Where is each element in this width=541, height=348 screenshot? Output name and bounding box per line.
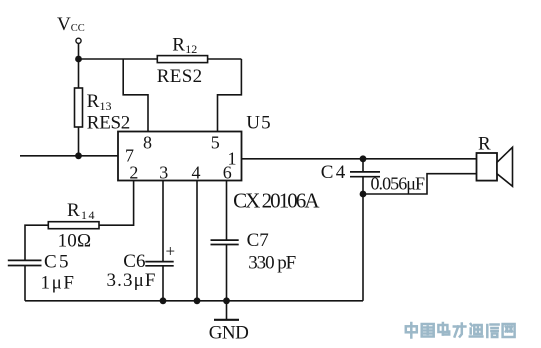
svg-text:5: 5 bbox=[211, 133, 220, 153]
resistor R12 bbox=[157, 56, 207, 63]
resistor R13 bbox=[75, 88, 83, 127]
watermark logo text bbox=[406, 323, 515, 338]
wire input to U5 pin 7 bbox=[20, 155, 118, 157]
junction dot bus pin4 bbox=[194, 297, 201, 304]
wire U5 pin 2 down to R14 bbox=[99, 181, 134, 226]
junction dot Vcc node bbox=[75, 56, 82, 63]
junction dot bus pin3 bbox=[160, 297, 167, 304]
svg-text:3.3μF: 3.3μF bbox=[107, 270, 156, 291]
speaker R body bbox=[477, 153, 498, 181]
op-amp U5 body bbox=[118, 132, 242, 181]
svg-text:CC: CC bbox=[71, 23, 85, 34]
svg-text:12: 12 bbox=[185, 42, 197, 56]
wire R14 left to C5 bbox=[25, 225, 48, 260]
svg-text:R: R bbox=[172, 34, 185, 55]
svg-text:14: 14 bbox=[81, 208, 95, 222]
svg-text:RES2: RES2 bbox=[157, 66, 202, 87]
Vcc terminal circle bbox=[76, 38, 81, 43]
svg-text:3: 3 bbox=[159, 162, 168, 182]
svg-text:C6: C6 bbox=[123, 251, 145, 272]
speaker horn bbox=[497, 147, 513, 186]
junction dot left rail bbox=[75, 152, 82, 159]
wire ground bus bbox=[25, 300, 363, 302]
svg-text:CX 20106A: CX 20106A bbox=[233, 188, 320, 212]
glyph tong bbox=[470, 324, 483, 337]
svg-text:0.056μF: 0.056μF bbox=[371, 174, 426, 194]
svg-text:R: R bbox=[87, 91, 100, 112]
svg-text:330 pF: 330 pF bbox=[248, 252, 296, 273]
resistor R14 bbox=[48, 222, 99, 229]
svg-text:U 5: U 5 bbox=[246, 113, 270, 134]
svg-text:6: 6 bbox=[223, 162, 232, 182]
wire C4 bottom to ground bus bbox=[362, 194, 364, 301]
capacitor C6 bbox=[145, 262, 173, 301]
wire left step down to U5 pin 8 bbox=[123, 59, 148, 132]
svg-text:R: R bbox=[67, 200, 80, 221]
label R14 bbox=[67, 200, 95, 222]
wire R12 right to corner bbox=[208, 58, 242, 60]
svg-text:R: R bbox=[478, 134, 491, 155]
wire U5 pin 3 down to C6 bbox=[162, 181, 164, 262]
svg-text:8: 8 bbox=[143, 133, 152, 153]
svg-text:V: V bbox=[57, 14, 71, 35]
svg-text:1μF: 1μF bbox=[41, 273, 75, 294]
wire U5 pin 6 down to C7 bbox=[226, 181, 228, 240]
junction dot bus pin6 bbox=[223, 297, 230, 304]
capacitor C5 bbox=[8, 260, 42, 300]
glyph dian bbox=[438, 323, 449, 335]
svg-text:GND: GND bbox=[209, 322, 249, 343]
glyph guo bbox=[422, 324, 434, 337]
capacitor C7 bbox=[211, 240, 239, 301]
glyph wang bbox=[503, 324, 515, 337]
junction dot C4 bottom bbox=[360, 191, 367, 198]
wire speaker lower terminal step bbox=[363, 174, 477, 194]
ground symbol bbox=[214, 301, 239, 320]
label R13 bbox=[87, 91, 112, 113]
wire right step down to U5 pin 5 bbox=[218, 59, 242, 132]
wire Vcc stem bbox=[78, 43, 80, 59]
node Vcc label bbox=[57, 14, 85, 35]
svg-text:10Ω: 10Ω bbox=[58, 230, 92, 251]
wire U5 pin 1 to speaker bbox=[242, 158, 477, 160]
svg-text:4: 4 bbox=[192, 162, 201, 182]
svg-text:C7: C7 bbox=[247, 230, 269, 251]
label R12 bbox=[172, 34, 197, 56]
svg-text:+: + bbox=[166, 242, 176, 261]
svg-text:13: 13 bbox=[100, 99, 112, 113]
glyph zhong bbox=[406, 323, 417, 338]
wire R13 bottom to left rail bbox=[78, 127, 80, 156]
junction dot C4 top bbox=[360, 155, 367, 162]
wire Vcc node down to R13 bbox=[78, 59, 80, 88]
svg-text:2: 2 bbox=[129, 162, 138, 182]
capacitor C4 bbox=[350, 159, 380, 194]
glyph li bbox=[454, 324, 466, 337]
wire U5 pin 4 down to bus bbox=[196, 181, 198, 301]
svg-text:C4: C4 bbox=[321, 162, 346, 183]
svg-text:C5: C5 bbox=[44, 252, 69, 273]
wire Vcc node to R12 left bbox=[79, 58, 158, 60]
glyph xin bbox=[487, 325, 498, 338]
svg-text:RES2: RES2 bbox=[87, 112, 131, 133]
